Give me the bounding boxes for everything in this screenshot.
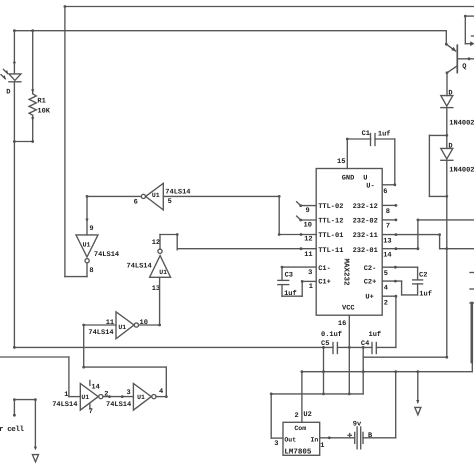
wire TTL-01 (pin 12) row into MAX232 bbox=[279, 233, 316, 236]
wire MAX232 pin 3 row (C1-) bbox=[281, 266, 317, 269]
label TTL-01 bbox=[318, 232, 343, 240]
svg-text:74LS14: 74LS14 bbox=[52, 401, 77, 409]
label In bbox=[311, 437, 319, 444]
wire gate 4 output to corner x=166.3 bbox=[156, 396, 166, 398]
wire x=417.9 drop to pin14 wire bbox=[417, 220, 420, 250]
svg-text:C4: C4 bbox=[361, 340, 369, 348]
wire gate 12 output up, right, down to TTL-11 row bbox=[160, 233, 179, 250]
svg-text:1: 1 bbox=[320, 442, 324, 450]
svg-text:TTL-02: TTL-02 bbox=[318, 203, 343, 211]
wire MAX232 pin 10 stub (TTL-12) with no-connect hook bbox=[297, 216, 317, 221]
wire LM7805 Com pin riser x=301.9 to ground rail bbox=[301, 372, 303, 423]
wire main column x=446.8 down to y=357.2 corner bbox=[446, 196, 448, 357]
svg-text:3: 3 bbox=[308, 269, 312, 277]
pin label 1 bbox=[309, 283, 313, 291]
svg-text:C3: C3 bbox=[285, 271, 293, 279]
label 1uf (C1) bbox=[378, 129, 391, 138]
svg-text:7: 7 bbox=[89, 408, 93, 416]
svg-text:13: 13 bbox=[383, 237, 391, 245]
svg-text:232-02: 232-02 bbox=[353, 218, 378, 226]
svg-text:4: 4 bbox=[384, 284, 388, 292]
resistor R1 zigzag body bbox=[29, 94, 36, 115]
svg-text:MAX232: MAX232 bbox=[341, 259, 350, 287]
op-amp style inverter U1 gate (output pin 6, input pin 5), left-pointing with bubble bbox=[141, 183, 163, 210]
wire MAX232 pin 15 stub up bbox=[346, 138, 349, 169]
label MAX232 (rotated) bbox=[341, 259, 350, 287]
svg-text:5: 5 bbox=[384, 270, 388, 278]
pin label 1 (LM7805 In) bbox=[320, 442, 324, 450]
svg-text:C1+: C1+ bbox=[318, 279, 331, 287]
wire x=83.7 riser from y=367 loop to gate 11 input bbox=[82, 325, 85, 369]
pin label 8 bbox=[386, 208, 390, 216]
pin label 12 bbox=[152, 239, 160, 247]
label 232-11 bbox=[353, 232, 378, 240]
svg-text:TTL-12: TTL-12 bbox=[318, 218, 343, 226]
wire x=323.5 tie between rails bbox=[322, 346, 325, 395]
svg-text:D: D bbox=[448, 90, 452, 98]
label C1 bbox=[362, 130, 370, 138]
wire ground stub x=417.8 with off-page arrow bbox=[416, 372, 419, 404]
svg-text:6: 6 bbox=[383, 188, 387, 196]
wire photodiode anode drop from rail bbox=[13, 31, 16, 74]
voltage regulator U2 LM7805 box bbox=[283, 422, 320, 455]
svg-text:C5: C5 bbox=[321, 340, 329, 348]
svg-text:D: D bbox=[6, 89, 10, 97]
label LM7805 bbox=[284, 447, 312, 456]
label 9v bbox=[353, 420, 362, 428]
svg-text:1: 1 bbox=[64, 391, 68, 399]
label C1+ bbox=[318, 279, 331, 287]
svg-text:74LS14: 74LS14 bbox=[106, 401, 131, 409]
svg-text:10: 10 bbox=[304, 222, 312, 230]
svg-text:U-: U- bbox=[366, 183, 374, 191]
transistor Q (PNP) emitter corner from rail bbox=[445, 31, 448, 46]
pin label 13 bbox=[152, 285, 160, 293]
pin label 7 (GND of 74LS14 package) bbox=[89, 408, 93, 416]
pin label 7 bbox=[386, 222, 390, 230]
wire photodiode cathode column down to lower-left rail corner bbox=[13, 82, 15, 348]
svg-text:1: 1 bbox=[309, 283, 313, 291]
label U1 (gate 11/10) bbox=[118, 324, 126, 331]
wire MAX232 pin 5 stub (C2-) to C2 top bbox=[382, 266, 417, 280]
pin label 8 bbox=[89, 267, 93, 275]
inverter U1 gate (input pin 13, output pin 12), up-pointing bbox=[150, 249, 171, 277]
label B (battery) bbox=[368, 432, 373, 440]
wire top rail from node above U1 column to right edge bbox=[64, 5, 474, 8]
capacitor C5 plates bbox=[333, 343, 337, 354]
svg-text:9: 9 bbox=[306, 207, 310, 215]
svg-text:U+: U+ bbox=[365, 294, 373, 302]
svg-text:1uf: 1uf bbox=[378, 129, 391, 138]
wire MAX232 pin 4 (C2+) loop to C2 bottom bbox=[382, 280, 417, 295]
wire C1 right plate to pin 6 (V-) bbox=[375, 139, 396, 186]
label 232-12 bbox=[353, 203, 378, 211]
label 74LS14 (gate 13/12) bbox=[127, 263, 152, 271]
pin label 2 bbox=[384, 299, 388, 307]
wire LM7805 Out riser x=271.2 bbox=[270, 394, 272, 438]
label C2 bbox=[419, 272, 427, 280]
label D (photodiode) bbox=[6, 89, 10, 97]
wire MAX232 pin 14 (232-01) bbox=[382, 247, 418, 250]
label C5 bbox=[321, 340, 329, 348]
svg-text:2: 2 bbox=[384, 299, 388, 307]
svg-text:1N4002: 1N4002 bbox=[449, 166, 474, 174]
pin label 9 bbox=[306, 207, 310, 215]
wire y=367 link from x=83.7 to x=166.3 bbox=[84, 366, 167, 368]
wire right edge column down to ground rail bbox=[471, 362, 473, 372]
wire second top rail y=30.7 from photodiode column to transistor emitter corner bbox=[13, 29, 446, 32]
pin label 2 (LM7805 Com) bbox=[295, 412, 299, 420]
wire +5V rail y=393.9 from LM7805 Out riser bbox=[270, 393, 363, 396]
wire between diodes bbox=[445, 108, 448, 149]
label R1 bbox=[37, 98, 45, 106]
pin label 4 bbox=[159, 388, 163, 396]
svg-text:9: 9 bbox=[89, 225, 93, 233]
svg-text:2: 2 bbox=[104, 390, 108, 398]
wire gate 10 output right then up to gate 13 input bbox=[139, 324, 161, 327]
svg-text:11: 11 bbox=[106, 319, 114, 327]
inverter U1 gate (input pin 3, output pin 4), right-pointing bbox=[133, 383, 156, 410]
svg-text:10: 10 bbox=[140, 319, 148, 327]
svg-text:11: 11 bbox=[304, 251, 312, 259]
label C2+ bbox=[364, 279, 377, 287]
wire collector column into diode chain bbox=[446, 73, 448, 96]
label 1N4002 (upper) bbox=[449, 119, 474, 127]
svg-text:U1: U1 bbox=[137, 394, 145, 401]
wire C4 right plate to V+ riser corner bbox=[376, 346, 396, 348]
svg-text:16: 16 bbox=[338, 320, 346, 328]
svg-text:74LS14: 74LS14 bbox=[88, 329, 113, 337]
label C1- bbox=[318, 265, 331, 273]
wire bypass loop around lower diode bbox=[429, 135, 446, 196]
wire pin15 to C1 left plate bbox=[347, 138, 370, 140]
svg-text:C2-: C2- bbox=[364, 265, 377, 273]
svg-text:232-01: 232-01 bbox=[353, 247, 378, 255]
pin label 14 bbox=[383, 251, 391, 259]
svg-text:U1: U1 bbox=[118, 324, 126, 331]
label 74LS14 (gate 11/10) bbox=[88, 329, 113, 337]
svg-text:0.1uf: 0.1uf bbox=[321, 330, 342, 339]
wire gate 2 output to gate 3 input bbox=[103, 395, 133, 398]
label Com bbox=[294, 425, 306, 432]
pin label 9 bbox=[89, 225, 93, 233]
wire long +rail y=347.4 from left column to C5 bbox=[13, 346, 333, 349]
pin label 5 bbox=[168, 198, 172, 206]
svg-text:74LS14: 74LS14 bbox=[94, 251, 119, 259]
wire In pin lead to battery bbox=[320, 436, 355, 439]
svg-text:C1: C1 bbox=[362, 130, 370, 138]
label Q bbox=[462, 63, 466, 71]
pin label 16 bbox=[338, 320, 346, 328]
wire ground rail y=371.7 bbox=[301, 370, 473, 373]
pin label 11 bbox=[106, 319, 114, 327]
wire MAX232 pin 7 stub (232-02) bbox=[382, 219, 397, 222]
wire TTL-11 (pin 11) row into MAX232 bbox=[177, 247, 316, 250]
svg-text:U1: U1 bbox=[159, 269, 167, 276]
wire gate 11 input from x=83.7 corner bbox=[82, 324, 116, 327]
photodiode D (with incident light arrows) bbox=[1, 69, 21, 81]
svg-text:VCC: VCC bbox=[342, 305, 355, 313]
label U1 (gate 3/4) bbox=[137, 394, 145, 401]
label 1uf (C2) bbox=[419, 289, 432, 298]
wire long left column x=65 from top rail down to inverter pin8 return bbox=[64, 7, 66, 277]
svg-text:74LS14: 74LS14 bbox=[165, 188, 190, 196]
label C3 bbox=[285, 271, 293, 279]
label 1uf (C4) bbox=[369, 330, 382, 339]
capacitor C3 (between pins 3 and 1) bbox=[278, 267, 304, 296]
capacitor C1 plates bbox=[371, 134, 376, 146]
svg-text:C1-: C1- bbox=[318, 265, 331, 273]
svg-text:Q: Q bbox=[462, 63, 466, 71]
label 74LS14 (gate 1/2) bbox=[52, 401, 77, 409]
wire MAX232 pin 13 (232-11) to jog bbox=[382, 233, 441, 236]
pin label 6 (MAX232 V-) bbox=[383, 188, 387, 196]
svg-text:LM7805: LM7805 bbox=[284, 447, 312, 456]
svg-text:12: 12 bbox=[304, 236, 312, 244]
pin label 14 (VCC of 74LS14 package) bbox=[91, 383, 99, 391]
diode D (lower 1N4002) bbox=[441, 148, 453, 160]
pin label 11 bbox=[304, 251, 312, 259]
pin label 12 bbox=[304, 236, 312, 244]
svg-text:6: 6 bbox=[134, 198, 138, 206]
ground arrow (hollow) bottom-left bbox=[32, 455, 38, 462]
wire MAX232 pin 16 VCC column x=349.3 bbox=[348, 315, 351, 395]
label U (MAX232) bbox=[363, 174, 367, 182]
label 232-02 bbox=[353, 218, 378, 226]
wire gate 13 input vertical down to gate 10 output corner bbox=[159, 277, 161, 325]
IC U3 MAX232 body bbox=[316, 169, 382, 316]
wire link joining R1 bottom to photodiode column y=141.5 bbox=[13, 140, 34, 143]
wire x=35.4 down to off-page arrow bbox=[34, 400, 37, 451]
label C2- bbox=[364, 265, 377, 273]
svg-text:U1: U1 bbox=[152, 192, 160, 199]
svg-text:10K: 10K bbox=[37, 108, 50, 116]
inverter U1 gate (input pin 1, output pin 2), right-pointing, with package power pins 14/7 bbox=[69, 380, 103, 410]
svg-text:C2+: C2+ bbox=[364, 279, 377, 287]
pin label 10 bbox=[304, 222, 312, 230]
label U- (MAX232 V-) bbox=[366, 183, 374, 191]
wire bottom-left input feed y=357 from left edge bbox=[0, 356, 69, 358]
label C4 bbox=[361, 340, 369, 348]
svg-text:4: 4 bbox=[159, 388, 163, 396]
wire corner drop x=279 to TTL-01 row bbox=[278, 196, 281, 236]
capacitor C2 plates bbox=[413, 280, 423, 284]
pin label 3 (LM7805 Out) bbox=[274, 440, 278, 448]
label U1 (gate 13/12) bbox=[159, 269, 167, 276]
pin label 4 bbox=[384, 284, 388, 292]
wire y=357.2 link from x=363.2 to solar column x=446.8 bbox=[363, 356, 448, 359]
wire x=68.9 drop to gate 1 input bbox=[68, 357, 70, 397]
wire gate 8 output down and left to x=65 column bbox=[65, 263, 87, 277]
label GND (MAX232 pin 15) bbox=[342, 174, 355, 182]
wire V+ riser x=395.9 from MAX232 pin 2 down to C4 bbox=[395, 295, 398, 348]
label TTL-11 bbox=[318, 247, 343, 255]
connector body edge (thick bar) at right edge bbox=[470, 303, 474, 362]
wire MAX232 pin 8 stub (232-12) bbox=[382, 204, 397, 207]
label Out bbox=[284, 437, 296, 444]
wire solar cell terminal stub at x=14.4 bbox=[13, 398, 16, 416]
svg-text:TTL-11: TTL-11 bbox=[318, 247, 343, 255]
label D (upper diode) bbox=[448, 90, 452, 98]
pin label 1 (gate 1 input) bbox=[64, 391, 68, 399]
svg-text:7: 7 bbox=[386, 222, 390, 230]
wire node to U1 gate 9 input vertical bbox=[85, 196, 88, 235]
label 1uf (C3) bbox=[284, 289, 297, 298]
label U+ (MAX232 V+) bbox=[365, 294, 373, 302]
inverter U1 gate (input pin 9, output pin 8), down-pointing bbox=[76, 235, 98, 263]
svg-text:9v: 9v bbox=[353, 420, 362, 428]
svg-text:Out: Out bbox=[284, 437, 296, 444]
svg-text:U2: U2 bbox=[303, 411, 311, 419]
svg-text:r cell: r cell bbox=[0, 425, 25, 434]
wire R1 top drop from rail y=30.7 bbox=[31, 31, 34, 94]
wire Out pin lead bbox=[271, 437, 283, 439]
svg-text:U1: U1 bbox=[83, 242, 91, 249]
svg-text:3: 3 bbox=[274, 440, 278, 448]
wire MAX232 pin 2 stub (U+) bbox=[382, 295, 396, 297]
svg-text:U1: U1 bbox=[81, 394, 89, 401]
svg-text:74LS14: 74LS14 bbox=[127, 263, 152, 271]
wire C5 right to C4 left along y=347.4 bbox=[337, 346, 372, 349]
pin label 13 bbox=[383, 237, 391, 245]
svg-text:C2: C2 bbox=[419, 272, 427, 280]
svg-text:In: In bbox=[311, 437, 319, 444]
svg-text:1uf: 1uf bbox=[419, 289, 432, 298]
wire below lower diode to bypass bottom bbox=[445, 160, 448, 198]
battery B 9v plates bbox=[348, 427, 363, 449]
svg-text:14: 14 bbox=[91, 383, 99, 391]
wire MAX232 pin 1 row (C1+) bbox=[302, 280, 316, 282]
svg-text:15: 15 bbox=[337, 158, 345, 166]
pin label 15 bbox=[337, 158, 345, 166]
wire gate input pin5 to corner x=279 bbox=[163, 195, 280, 198]
label U1 (gate 9/8) bbox=[83, 242, 91, 249]
label 232-01 bbox=[353, 247, 378, 255]
pin label 10 bbox=[140, 319, 148, 327]
ground arrow (hollow) below x=417.8 bbox=[415, 407, 421, 414]
transistor Q body: emitter arrow, bar, base, collector bbox=[446, 44, 474, 74]
wire riser x=395.7 battery to ground rail bbox=[395, 372, 397, 438]
label U1 (gate 1/2) bbox=[81, 394, 89, 401]
inverter U1 gate (input pin 11, output pin 10), right-pointing bbox=[116, 312, 138, 339]
svg-text:8: 8 bbox=[89, 267, 93, 275]
pin label 6 bbox=[134, 198, 138, 206]
pin label 5 bbox=[384, 270, 388, 278]
svg-text:232-11: 232-11 bbox=[353, 232, 378, 240]
wire battery negative to riser x=395.7 bbox=[363, 437, 396, 439]
svg-text:232-12: 232-12 bbox=[353, 203, 378, 211]
svg-text:R1: R1 bbox=[37, 98, 45, 106]
wire link y=399.6 to arrow column bbox=[14, 398, 36, 401]
wire RS232 line y=219.9 to right edge bbox=[417, 219, 474, 222]
connector stubs cut at right edge bbox=[470, 273, 474, 290]
pin label 3 bbox=[127, 389, 131, 397]
wire x=363.2 drop: C4 junction through mid rail to +5V rail bbox=[362, 347, 365, 394]
svg-text:U: U bbox=[363, 174, 367, 182]
label D (lower diode) bbox=[448, 143, 452, 151]
label U1 (gate 6/5) bbox=[152, 192, 160, 199]
svg-text:TTL-01: TTL-01 bbox=[318, 232, 343, 240]
wire node junction to U1 gate 6/5 output, y=196.4 bbox=[86, 195, 142, 198]
pin label 2 bbox=[104, 390, 108, 398]
label U2 bbox=[303, 411, 311, 419]
svg-text:13: 13 bbox=[152, 285, 160, 293]
label 74LS14 (gate 6/5) bbox=[165, 188, 190, 196]
svg-text:12: 12 bbox=[152, 239, 160, 247]
svg-text:3: 3 bbox=[127, 389, 131, 397]
svg-text:1N4002: 1N4002 bbox=[449, 119, 474, 127]
label 1N4002 (lower) bbox=[449, 166, 474, 174]
svg-text:D: D bbox=[448, 143, 452, 151]
svg-text:14: 14 bbox=[383, 251, 391, 259]
label r cell (solar cell, cut at edge) bbox=[0, 425, 25, 434]
label VCC (MAX232 pin 16) bbox=[342, 305, 355, 313]
wire jog x=439.6 down and right to edge bbox=[440, 235, 474, 251]
label 0.1uf (C5) bbox=[321, 330, 342, 339]
label TTL-12 bbox=[318, 218, 343, 226]
capacitor C4 plates bbox=[372, 343, 376, 354]
label 10K bbox=[37, 108, 50, 116]
svg-text:Com: Com bbox=[294, 425, 306, 432]
wire MAX232 pin 9 stub (TTL-02) with no-connect hook bbox=[297, 202, 317, 207]
svg-text:5: 5 bbox=[168, 198, 172, 206]
svg-text:2: 2 bbox=[295, 412, 299, 420]
label TTL-02 bbox=[318, 203, 343, 211]
diode D (upper 1N4002) bbox=[441, 96, 453, 108]
svg-text:GND: GND bbox=[342, 174, 355, 182]
pin label 3 bbox=[308, 269, 312, 277]
connector box cut at top-right corner bbox=[464, 15, 474, 46]
svg-text:8: 8 bbox=[386, 208, 390, 216]
wire R1 bottom lead down to link bbox=[31, 115, 34, 141]
svg-text:B: B bbox=[368, 432, 373, 440]
label 74LS14 (gate 9/8) bbox=[94, 251, 119, 259]
wire x=166.3 drop to gate 4 output bbox=[165, 367, 168, 398]
label 74LS14 (gate 3/4) bbox=[106, 401, 131, 409]
svg-text:1uf: 1uf bbox=[369, 330, 382, 339]
svg-text:1uf: 1uf bbox=[284, 289, 297, 298]
